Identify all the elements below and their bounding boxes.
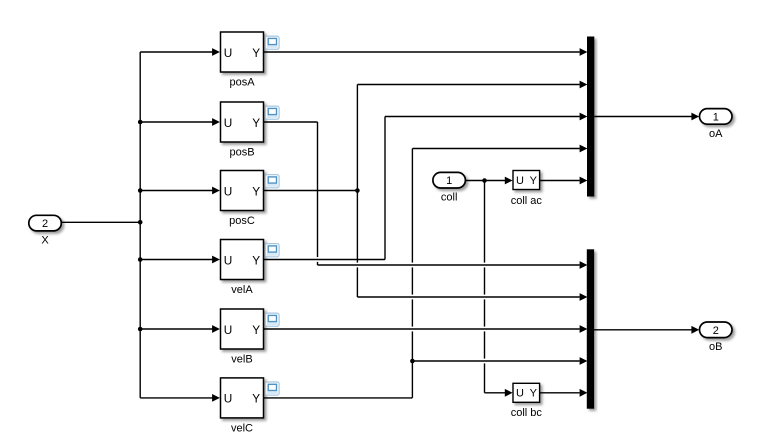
wire: posC to Mux2 port2 bbox=[357, 296, 579, 298]
svg-text:1: 1 bbox=[446, 175, 452, 187]
wire: posC vertical segment bbox=[356, 85, 358, 298]
wire: coll to coll bc bbox=[485, 392, 506, 394]
svg-text:Y: Y bbox=[530, 175, 538, 187]
wire crossing gaps bbox=[316, 257, 319, 262]
svg-text:U: U bbox=[516, 388, 524, 400]
svg-text:Y: Y bbox=[252, 46, 260, 60]
input port coll bbox=[433, 172, 466, 203]
wire: posC out bbox=[264, 190, 358, 192]
svg-text:oA: oA bbox=[709, 128, 723, 140]
arrowhead into posC bbox=[212, 187, 220, 195]
wire: velA to Mux1 port3 bbox=[385, 116, 580, 118]
wire: trunk branch to posC bbox=[140, 190, 213, 192]
arrowhead into oA bbox=[691, 113, 699, 121]
svg-text:posB: posB bbox=[229, 147, 254, 159]
svg-text:oB: oB bbox=[709, 341, 722, 353]
wire: trunk branch to velA bbox=[140, 259, 213, 261]
svg-text:Y: Y bbox=[252, 253, 260, 267]
wire: posB out bbox=[264, 121, 318, 123]
wire: X port to trunk bbox=[61, 221, 140, 223]
arrowhead into posB bbox=[212, 118, 220, 126]
svg-text:U: U bbox=[224, 184, 233, 198]
junction coll branch bbox=[482, 178, 487, 183]
wire: coll port to coll ac bbox=[465, 180, 505, 182]
arrowhead Mux2 port5 bbox=[580, 389, 588, 397]
selector block velC bbox=[221, 378, 280, 435]
output port oA bbox=[700, 109, 733, 140]
arrowhead into velA bbox=[212, 256, 220, 264]
arrowhead Mux2 port3 bbox=[580, 325, 588, 333]
arrowhead Mux1 port5 bbox=[580, 177, 588, 185]
svg-text:U: U bbox=[224, 253, 233, 267]
svg-text:2: 2 bbox=[42, 218, 48, 230]
svg-text:U: U bbox=[224, 46, 233, 60]
selector block posB bbox=[221, 102, 280, 159]
arrowhead into velB bbox=[212, 325, 220, 333]
wire: velC vertical segment bbox=[411, 149, 413, 398]
svg-text:1: 1 bbox=[713, 111, 719, 123]
arrowhead Mux1 port4 bbox=[580, 145, 588, 153]
svg-text:Y: Y bbox=[252, 116, 260, 130]
arrowhead Mux1 port2 bbox=[580, 81, 588, 89]
wire: velC to Mux2 port4 bbox=[412, 360, 579, 362]
svg-text:X: X bbox=[41, 235, 49, 247]
svg-text:posC: posC bbox=[229, 215, 255, 227]
arrowhead into posA bbox=[212, 48, 220, 56]
selector block posC bbox=[221, 171, 280, 228]
wire: velA up segment bbox=[384, 117, 386, 260]
junction on trunk at posC bbox=[138, 188, 143, 193]
wire: trunk branch to velC bbox=[140, 397, 213, 399]
wire: coll down segment bbox=[484, 181, 486, 393]
svg-text:U: U bbox=[224, 116, 233, 130]
Mux2 (to oB) bbox=[587, 249, 594, 408]
wire: trunk branch to posA bbox=[140, 51, 213, 53]
svg-text:velC: velC bbox=[231, 423, 253, 435]
wire: posA out to Mux1 port1 bbox=[264, 51, 580, 53]
wire: velC out bbox=[264, 397, 413, 399]
wire: posB down segment bbox=[317, 122, 319, 265]
svg-text:velB: velB bbox=[231, 354, 252, 366]
arrowhead Mux1 port1 bbox=[580, 48, 588, 56]
wire: trunk branch to velB bbox=[140, 328, 213, 330]
svg-text:coll ac: coll ac bbox=[511, 195, 543, 207]
input port X bbox=[29, 215, 62, 246]
junction posC output branch bbox=[355, 188, 360, 193]
output port oB bbox=[700, 322, 733, 353]
arrowhead Mux2 port2 bbox=[580, 293, 588, 301]
arrowhead into oB bbox=[691, 326, 699, 334]
svg-text:U: U bbox=[224, 323, 233, 337]
selector block coll bc bbox=[511, 383, 543, 419]
wire: coll ac out to Mux1 port5 bbox=[540, 180, 580, 182]
wire: velA out bbox=[264, 259, 386, 261]
svg-text:posA: posA bbox=[229, 77, 255, 89]
svg-text:Y: Y bbox=[252, 323, 260, 337]
selector block coll ac bbox=[511, 171, 543, 208]
svg-text:coll: coll bbox=[441, 192, 458, 204]
arrowhead into coll ac bbox=[505, 177, 513, 185]
wire: Mux1 out to oA bbox=[594, 116, 692, 118]
arrowhead into velC bbox=[212, 394, 220, 402]
svg-text:Y: Y bbox=[252, 392, 260, 406]
arrowhead Mux2 port1 bbox=[580, 261, 588, 269]
junction on trunk at X input bbox=[138, 220, 143, 225]
svg-text:U: U bbox=[224, 392, 233, 406]
arrowhead Mux1 port3 bbox=[580, 113, 588, 121]
svg-text:coll bc: coll bc bbox=[511, 407, 543, 419]
wire: coll bc out to Mux2 port5 bbox=[540, 392, 580, 394]
selector block velB bbox=[221, 309, 280, 366]
svg-text:velA: velA bbox=[231, 284, 253, 296]
selector block posA bbox=[221, 32, 280, 89]
junction velC branch bbox=[410, 359, 415, 364]
Mux1 (to oA) bbox=[587, 37, 594, 197]
wire: Mux2 out to oB bbox=[594, 329, 692, 331]
wire: velB out to Mux2 port3 bbox=[264, 328, 580, 330]
svg-text:Y: Y bbox=[252, 184, 260, 198]
arrowhead into coll bc bbox=[505, 389, 513, 397]
junction on trunk at velB bbox=[138, 327, 143, 332]
arrowhead Mux2 port4 bbox=[580, 357, 588, 365]
wire: trunk branch to posB bbox=[140, 121, 213, 123]
wire: X trunk vertical bbox=[139, 52, 141, 398]
junction on trunk at posB bbox=[138, 120, 143, 125]
svg-text:Y: Y bbox=[530, 388, 538, 400]
wire: velC to Mux1 port4 bbox=[412, 148, 579, 150]
selector block velA bbox=[221, 240, 280, 297]
svg-text:U: U bbox=[516, 175, 524, 187]
svg-text:2: 2 bbox=[713, 325, 719, 337]
junction on trunk at velA bbox=[138, 257, 143, 262]
wire: posB to Mux2 port1 bbox=[318, 264, 580, 266]
wire: posC to Mux1 port2 bbox=[357, 84, 579, 86]
